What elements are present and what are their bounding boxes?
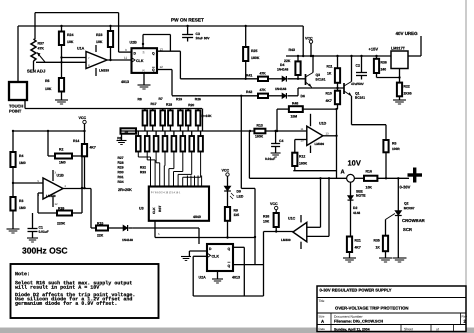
svg-text:+15V: +15V xyxy=(368,47,378,52)
svg-text:OVER-VOLTAGE TRIP PROTECTION: OVER-VOLTAGE TRIP PROTECTION xyxy=(335,306,408,311)
svg-text:of: of xyxy=(436,328,439,332)
svg-text:4K7: 4K7 xyxy=(354,246,360,250)
svg-text:1M0: 1M0 xyxy=(19,206,26,210)
svg-text:LM317T: LM317T xyxy=(391,47,406,51)
svg-text:VCC: VCC xyxy=(270,202,278,206)
svg-text:D6: D6 xyxy=(300,94,304,98)
svg-text:R7: R7 xyxy=(158,97,162,101)
svg-text:C4: C4 xyxy=(279,139,283,143)
svg-text:U1B: U1B xyxy=(56,174,64,178)
svg-text:10K: 10K xyxy=(263,220,270,224)
svg-text:POINT: POINT xyxy=(9,109,22,114)
svg-text:R42: R42 xyxy=(246,90,252,94)
svg-text:R28: R28 xyxy=(117,161,123,165)
svg-text:Filename: DIG_CROW.SCH: Filename: DIG_CROW.SCH xyxy=(334,320,383,324)
svg-text:1k5: 1k5 xyxy=(233,213,239,217)
svg-text:SCR: SCR xyxy=(403,227,412,232)
svg-text:U2A: U2A xyxy=(198,276,206,280)
svg-text:NOTE: NOTE xyxy=(356,194,366,198)
svg-text:4148: 4148 xyxy=(353,211,360,215)
svg-text:4013: 4013 xyxy=(121,80,129,84)
svg-text:Q2: Q2 xyxy=(404,202,409,206)
svg-text:220K: 220K xyxy=(57,222,66,226)
svg-text:R34: R34 xyxy=(117,180,123,184)
svg-text:100R: 100R xyxy=(392,147,400,151)
svg-text:4K7: 4K7 xyxy=(89,146,95,150)
svg-text:R20: R20 xyxy=(188,103,194,107)
svg-text:U3: U3 xyxy=(139,207,144,211)
svg-text:Q: Q xyxy=(227,247,230,251)
svg-text:47uF50V: 47uF50V xyxy=(351,82,365,86)
svg-text:10K: 10K xyxy=(67,40,74,44)
svg-text:1N4148: 1N4148 xyxy=(277,68,288,72)
svg-text:11: 11 xyxy=(124,56,127,60)
svg-text:R8: R8 xyxy=(137,97,141,101)
svg-text:R29: R29 xyxy=(117,166,123,170)
svg-text:R5: R5 xyxy=(392,142,396,146)
svg-text:1N4148: 1N4148 xyxy=(122,238,133,242)
svg-text:R41: R41 xyxy=(246,74,252,78)
svg-text:CLK: CLK xyxy=(136,59,144,63)
svg-text:R19: R19 xyxy=(176,97,182,101)
svg-text:4040: 4040 xyxy=(193,215,201,219)
svg-text:2R=20K: 2R=20K xyxy=(118,188,132,192)
svg-text:R14: R14 xyxy=(73,139,79,143)
svg-text:1N4148: 1N4148 xyxy=(275,87,286,91)
svg-text:Q: Q xyxy=(152,52,155,56)
svg-text:1K: 1K xyxy=(327,72,332,76)
svg-text:R43: R43 xyxy=(288,48,294,52)
svg-text:0.01uF: 0.01uF xyxy=(38,230,48,234)
svg-text:BC161: BC161 xyxy=(315,78,325,82)
svg-text:R12: R12 xyxy=(299,155,305,159)
svg-text:4013: 4013 xyxy=(232,276,240,280)
svg-text:300Hz OSC: 300Hz OSC xyxy=(22,246,68,256)
svg-text:1M0: 1M0 xyxy=(59,161,66,165)
svg-text:U1C: U1C xyxy=(288,217,296,221)
svg-text:47K: 47K xyxy=(259,88,266,92)
svg-text:VCC: VCC xyxy=(305,37,313,41)
svg-text:LM339: LM339 xyxy=(314,142,324,146)
svg-text:1K: 1K xyxy=(375,246,380,250)
svg-text:A: A xyxy=(321,319,324,324)
svg-text:U1A: U1A xyxy=(77,47,85,51)
svg-text:D9: D9 xyxy=(236,190,240,194)
svg-text:R21: R21 xyxy=(354,239,360,243)
svg-text:D4: D4 xyxy=(280,63,284,67)
svg-text:LM339: LM339 xyxy=(281,238,291,242)
svg-text:R11: R11 xyxy=(326,65,332,69)
svg-text:R36: R36 xyxy=(380,61,386,65)
svg-text:will result in point A = 10V: will result in point A = 10V xyxy=(15,285,99,291)
svg-text:10V: 10V xyxy=(347,159,360,168)
svg-text:R48: R48 xyxy=(292,102,298,106)
svg-text:R25: R25 xyxy=(251,49,257,53)
svg-text:CROWBAR: CROWBAR xyxy=(402,218,425,223)
svg-text:R24: R24 xyxy=(67,33,73,37)
svg-text:LED: LED xyxy=(236,195,243,199)
svg-text:germanium diode for a 0.9V off: germanium diode for a 0.9V offset. xyxy=(15,301,117,307)
svg-text:S: S xyxy=(142,51,144,55)
svg-text:9 7 6 5 3 2 4 13 12 14 15 1: 9 7 6 5 3 2 4 13 12 14 15 1 xyxy=(151,191,181,194)
svg-text:2K65: 2K65 xyxy=(403,92,411,96)
svg-text:1M0: 1M0 xyxy=(19,161,26,165)
svg-text:C2: C2 xyxy=(355,64,359,68)
svg-text:R30: R30 xyxy=(117,170,123,174)
svg-text:R13: R13 xyxy=(256,124,262,128)
svg-text:4K7: 4K7 xyxy=(325,99,331,103)
svg-text:R31: R31 xyxy=(117,175,123,179)
svg-text:R18: R18 xyxy=(166,103,172,107)
svg-text:180K: 180K xyxy=(255,135,264,139)
svg-text:R27: R27 xyxy=(117,156,123,160)
svg-text:R2: R2 xyxy=(59,148,63,152)
svg-text:D2: D2 xyxy=(353,206,357,210)
svg-text:0-30V: 0-30V xyxy=(399,185,410,190)
svg-text:Q: Q xyxy=(152,68,155,72)
svg-text:R38: R38 xyxy=(263,215,269,219)
svg-text:R39: R39 xyxy=(58,207,64,211)
svg-text:10K: 10K xyxy=(365,186,372,190)
svg-text:SEN ADJ: SEN ADJ xyxy=(27,69,46,74)
svg-text:22K: 22K xyxy=(284,59,291,63)
svg-text:10K: 10K xyxy=(96,40,103,44)
svg-text:U2B: U2B xyxy=(129,41,137,45)
svg-text:R26: R26 xyxy=(195,97,201,101)
svg-text:U1D: U1D xyxy=(319,122,327,126)
svg-text:MCR67: MCR67 xyxy=(404,206,415,210)
svg-text:Title: Title xyxy=(318,299,324,303)
svg-text:R10: R10 xyxy=(325,92,331,96)
svg-text:R35: R35 xyxy=(373,239,379,243)
svg-text:10K: 10K xyxy=(45,87,52,91)
svg-text:R37: R37 xyxy=(37,42,43,46)
svg-text:Q3: Q3 xyxy=(315,73,320,77)
svg-text:R32: R32 xyxy=(140,166,146,170)
svg-text:11: 11 xyxy=(300,127,303,131)
svg-text:Date: Date xyxy=(318,327,325,331)
svg-text:12: 12 xyxy=(159,65,163,69)
svg-text:R16: R16 xyxy=(365,170,371,174)
svg-text:22K: 22K xyxy=(97,234,104,238)
svg-text:240: 240 xyxy=(380,68,386,72)
svg-text:47K: 47K xyxy=(37,47,44,51)
svg-text:R6: R6 xyxy=(45,79,50,83)
svg-text:LM339: LM339 xyxy=(46,194,56,198)
svg-text:0.01uF: 0.01uF xyxy=(265,157,275,161)
svg-text:PW ON RESET: PW ON RESET xyxy=(171,18,204,23)
svg-text:R17: R17 xyxy=(150,102,156,106)
svg-text:180K: 180K xyxy=(299,162,308,166)
svg-text:180K: 180K xyxy=(251,56,260,60)
svg-text:47K: 47K xyxy=(259,72,266,76)
svg-text:40V UREG: 40V UREG xyxy=(395,31,418,36)
svg-text:15M: 15M xyxy=(290,115,297,119)
svg-text:R3: R3 xyxy=(19,199,23,203)
svg-text:CLK: CLK xyxy=(211,255,219,259)
svg-text:LM339: LM339 xyxy=(99,69,109,73)
svg-text:0-30V REGULATED POWER SUPPLY: 0-30V REGULATED POWER SUPPLY xyxy=(319,288,391,293)
svg-text:RST: RST xyxy=(158,206,162,212)
svg-text:13: 13 xyxy=(325,132,329,136)
svg-text:R22: R22 xyxy=(403,85,409,89)
svg-text:CLK: CLK xyxy=(152,207,156,214)
svg-text:Document Number: Document Number xyxy=(334,315,363,319)
svg-text:R4: R4 xyxy=(19,154,23,158)
svg-text:VCC: VCC xyxy=(221,169,229,173)
svg-text:R9: R9 xyxy=(233,209,237,213)
svg-text:R33: R33 xyxy=(140,170,146,174)
svg-text:VCC: VCC xyxy=(78,116,86,120)
svg-text:Sheet: Sheet xyxy=(404,327,413,331)
svg-text:R15: R15 xyxy=(97,222,103,226)
svg-text:BC161: BC161 xyxy=(355,96,365,100)
svg-text:Sunday, April 11, 2004: Sunday, April 11, 2004 xyxy=(334,328,370,332)
svg-text:R23: R23 xyxy=(96,33,102,37)
svg-text:10uF 50V: 10uF 50V xyxy=(195,36,210,40)
svg-text:12: 12 xyxy=(54,202,58,206)
svg-text:Q: Q xyxy=(227,264,230,268)
svg-text:Note:: Note: xyxy=(15,271,30,277)
